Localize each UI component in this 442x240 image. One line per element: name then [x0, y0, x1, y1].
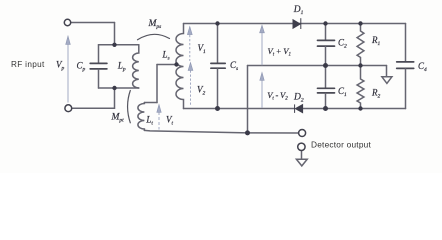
svg-text:Detector output: Detector output — [311, 139, 372, 149]
svg-text:RF input: RF input — [11, 60, 45, 69]
